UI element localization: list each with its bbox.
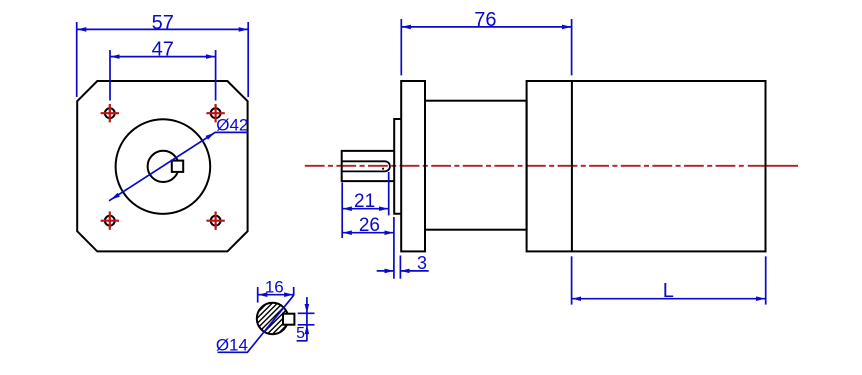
mounting hole bottom-left [101, 212, 119, 230]
dimension 5 [297, 297, 315, 341]
svg-text:Ø14: Ø14 [216, 336, 248, 355]
shaft body [342, 151, 395, 181]
pilot circle D42 [116, 119, 211, 214]
flat center dot [382, 168, 384, 170]
dimension 21 [342, 172, 389, 238]
dimension L [572, 256, 766, 304]
dimension 57 [77, 22, 249, 97]
centerline end segment [748, 165, 798, 167]
key square on shaft [172, 161, 183, 172]
shaft key flat outline [342, 161, 390, 171]
svg-text:L: L [663, 280, 674, 302]
svg-text:76: 76 [474, 9, 496, 31]
motor front cap line [571, 81, 573, 251]
dimension 3 [377, 256, 429, 279]
svg-text:Ø42: Ø42 [216, 115, 248, 134]
svg-text:3: 3 [417, 253, 427, 273]
svg-text:16: 16 [265, 278, 284, 297]
boss plate [394, 119, 401, 214]
label D14 with leader [218, 295, 294, 352]
leader D42 [109, 132, 248, 200]
svg-text:57: 57 [152, 12, 174, 34]
svg-text:47: 47 [152, 39, 174, 61]
mounting hole bottom-right [206, 212, 224, 230]
dimension 76 [401, 19, 571, 75]
svg-text:21: 21 [354, 191, 375, 212]
shaft hole circle [148, 151, 179, 182]
motor body [527, 81, 766, 251]
svg-text:5: 5 [296, 325, 305, 342]
gearbox body [425, 101, 527, 230]
dimension 47 [110, 50, 216, 101]
dimension 16 [258, 287, 294, 303]
mounting hole top-left [101, 104, 119, 122]
dimension 26 [343, 217, 394, 279]
mounting hole top-right [206, 104, 224, 122]
front flange plate [401, 81, 425, 251]
svg-text:26: 26 [359, 215, 380, 236]
key square on section [283, 314, 294, 325]
centerline (red dash-dot) [305, 165, 747, 167]
flange outline (chamfered square) [77, 81, 247, 251]
hatched shaft section circle [252, 274, 296, 360]
